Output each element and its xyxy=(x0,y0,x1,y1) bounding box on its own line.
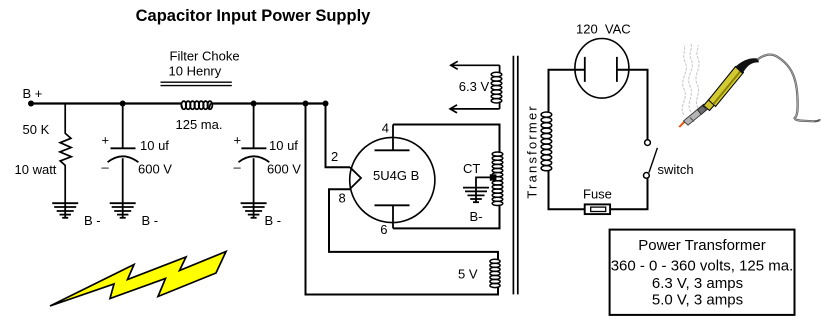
soldering iron shaft xyxy=(684,104,708,125)
svg-text:360 - 0 - 360 volts, 125 ma.: 360 - 0 - 360 volts, 125 ma. xyxy=(611,257,794,274)
soldering iron handle xyxy=(709,67,744,107)
arrow 6.3V top xyxy=(451,61,500,69)
wire main B+ rail left of choke xyxy=(30,102,181,104)
svg-text:6.3 V: 6.3 V xyxy=(459,79,490,94)
wire pin 4 to HV winding top xyxy=(393,125,500,154)
inductor L1 filter choke xyxy=(181,101,212,109)
svg-text:5U4G B: 5U4G B xyxy=(373,168,419,183)
svg-text:B-: B- xyxy=(470,209,483,224)
arrow 6.3V bottom xyxy=(450,105,500,113)
svg-text:6.3 V, 3 amps: 6.3 V, 3 amps xyxy=(652,275,743,292)
soldering iron hot tip xyxy=(679,118,689,128)
ground for C1 xyxy=(110,203,136,218)
svg-text:–: – xyxy=(234,160,242,175)
wire main B+ rail right of choke xyxy=(211,102,327,104)
spec box Power Transformer xyxy=(610,230,795,315)
lightning bolt graphic xyxy=(50,252,226,307)
svg-text:Transformer: Transformer xyxy=(524,104,539,199)
svg-text:10 watt: 10 watt xyxy=(15,162,57,177)
svg-text:600 V: 600 V xyxy=(267,162,301,177)
wire primary loop right side (plug to switch, fuse to switch) xyxy=(610,70,647,210)
svg-text:Fuse: Fuse xyxy=(583,186,612,201)
soldering iron strain relief xyxy=(735,58,759,74)
soldering iron collar xyxy=(704,97,718,111)
wire pin 8 to 5V winding top xyxy=(329,189,498,260)
wire B+ rail down to bottom rail (x=305.5) xyxy=(306,104,499,295)
svg-text:5.0 V, 3 amps: 5.0 V, 3 amps xyxy=(652,292,743,309)
wire CT tap xyxy=(476,177,490,202)
svg-text:Filter Choke: Filter Choke xyxy=(170,48,240,63)
svg-text:600 V: 600 V xyxy=(138,162,172,177)
AC plug circle 120 VAC xyxy=(575,39,629,99)
ground for R1 xyxy=(64,202,66,218)
node dot at x=325.5 xyxy=(323,101,329,107)
tube anode pin 4 stub and plate xyxy=(375,125,410,151)
switch S1 xyxy=(644,140,658,179)
svg-text:B +: B + xyxy=(23,86,43,101)
svg-text:10 uf: 10 uf xyxy=(269,138,298,153)
svg-text:4: 4 xyxy=(382,121,389,136)
node dot C1 junction xyxy=(120,101,126,107)
tube U1 5U4G envelope xyxy=(350,137,435,222)
svg-text:6: 6 xyxy=(380,222,387,237)
svg-text:Capacitor Input Power Supply: Capacitor Input Power Supply xyxy=(136,7,372,25)
transformer core lines xyxy=(513,56,517,295)
svg-text:5 V: 5 V xyxy=(458,267,478,282)
soldering iron cord xyxy=(758,55,820,122)
6.3V winding stubs xyxy=(499,65,501,109)
svg-text:125 ma.: 125 ma. xyxy=(176,117,223,132)
svg-text:120 VAC: 120 VAC xyxy=(576,22,631,37)
node CT tap (square) xyxy=(490,174,497,180)
6.3V winding xyxy=(491,72,502,103)
soldering iron cord highlight xyxy=(758,55,815,122)
capacitor C1 10uf xyxy=(108,104,139,219)
resistor R1 50K xyxy=(60,104,71,203)
svg-text:50 K: 50 K xyxy=(23,122,50,137)
svg-text:10 uf: 10 uf xyxy=(140,138,169,153)
svg-text:2: 2 xyxy=(331,149,338,164)
node dot at x=305.5 xyxy=(303,101,309,107)
svg-text:switch: switch xyxy=(658,162,694,177)
svg-text:B -: B - xyxy=(142,213,159,228)
wire primary loop left/top/bottom xyxy=(549,70,585,210)
node dot C2 junction xyxy=(251,101,257,107)
svg-text:CT: CT xyxy=(463,161,480,176)
choke double underline xyxy=(161,82,232,85)
plug prong right xyxy=(616,57,618,82)
tube filament (pins 2/8) xyxy=(350,167,361,189)
soldering iron handle shade xyxy=(714,71,742,105)
capacitor C2 10uf xyxy=(239,104,270,219)
transformer HV secondary winding 360-0-360 xyxy=(492,152,503,205)
ground for C2 xyxy=(241,203,267,218)
5V winding xyxy=(490,259,500,287)
svg-text:+: + xyxy=(234,132,242,147)
svg-text:Power Transformer: Power Transformer xyxy=(638,237,766,254)
svg-text:B -: B - xyxy=(265,213,282,228)
svg-text:+: + xyxy=(102,132,110,147)
fuse F1 xyxy=(585,204,610,214)
wire node to tube pin 2 (x=325.5) xyxy=(326,104,351,168)
soldering iron smoke xyxy=(682,44,699,115)
ground for CT xyxy=(463,188,489,203)
svg-text:10 Henry: 10 Henry xyxy=(169,63,222,78)
primary winding xyxy=(541,112,552,171)
tube anode pin 6 stub and plate xyxy=(375,205,410,228)
wire pin 6 to HV winding bottom xyxy=(393,205,500,229)
svg-text:–: – xyxy=(102,160,110,175)
plug prong left xyxy=(584,57,586,82)
node dot B+ terminal xyxy=(28,101,34,107)
svg-text:B -: B - xyxy=(84,213,101,228)
svg-text:8: 8 xyxy=(339,191,346,206)
